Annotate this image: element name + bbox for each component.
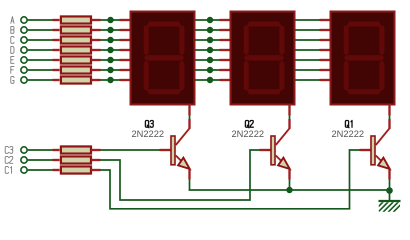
display 2 pin row C [220, 39, 230, 41]
display 1 pin row E [120, 59, 130, 61]
node F terminal label [11, 67, 14, 74]
wire E resistor to display 1 [101, 59, 120, 61]
resistor pin left (row D) [53, 49, 60, 51]
display 3 segment e [344, 60, 349, 90]
wire C2 routing to Q2 base [101, 150, 261, 200]
wire C1 routing to Q1 base [101, 150, 361, 209]
wire C terminal to resistor [28, 39, 53, 41]
display 2 pin row A [220, 19, 230, 21]
resistor pin right (row E) [91, 59, 101, 61]
transistor Q2 emitter pin vertical [288, 169, 290, 180]
wire G resistor to display 1 [101, 79, 120, 81]
display 3 pin row D [320, 49, 330, 51]
display 3 pin row C [320, 39, 330, 41]
wire display 2 common to transistor collector [289, 116, 291, 120]
junction dot Q2 emitter on ground rail [286, 187, 293, 194]
display 3 pin row F [320, 69, 330, 71]
display 3 segment d [347, 89, 382, 94]
transistor Q1 base pin [360, 149, 372, 151]
wire Q1 emitter to ground rail [389, 180, 391, 191]
wire B resistor to display 1 [101, 29, 120, 31]
transistor collector pin vertical (display 3) [388, 119, 390, 129]
display 1 pin row C [120, 39, 130, 41]
wire D display 2 to display 3 [296, 49, 320, 51]
resistor pin right (row G) [91, 79, 101, 81]
display 2 segment a [247, 22, 282, 27]
wire ground stub [389, 190, 391, 201]
wire B display 2 to display 3 [296, 29, 320, 31]
resistor pin right (row C2) [91, 159, 101, 161]
resistor pin left (row E) [53, 59, 60, 61]
display 3 pin row B [320, 29, 330, 31]
junction dot row G before display 1 [107, 77, 114, 84]
display 1 segment b [179, 25, 184, 55]
display 3 segment c [379, 60, 384, 90]
resistor RC [61, 36, 91, 43]
transistor Q1 2N2222 [371, 128, 390, 169]
transistor Q3 2N2222 [171, 128, 190, 169]
resistor pin left (row B) [53, 29, 60, 31]
transistor Q2 2N2222 [271, 128, 290, 169]
resistor pin right (row C3) [91, 149, 101, 151]
junction dot row D before display 1 [107, 47, 114, 54]
resistor pin left (row C) [53, 39, 60, 41]
node C1 terminal label [5, 167, 11, 174]
resistor pin left (row A) [53, 19, 60, 21]
display 2 segment b [279, 25, 284, 55]
node E terminal label [11, 57, 14, 64]
svg-text:2N2222: 2N2222 [332, 129, 365, 139]
wire F resistor to display 1 [101, 69, 120, 71]
resistor RF [61, 66, 91, 73]
svg-text:2N2222: 2N2222 [232, 129, 265, 139]
wire C display 1 to display 2 [196, 39, 220, 41]
display 1 pin row A [120, 19, 130, 21]
resistor RC3 [61, 146, 91, 153]
wire C2 terminal to resistor [28, 159, 53, 161]
ground symbol [373, 201, 404, 212]
terminal D circle [21, 47, 27, 53]
resistor pin left (row F) [53, 69, 60, 71]
junction dot row E between displays [207, 57, 214, 64]
display 1 segment a [147, 22, 182, 27]
wire D resistor to display 1 [101, 49, 120, 51]
wire C1 terminal to resistor [28, 169, 53, 171]
display 2 segment e [244, 60, 249, 90]
svg-text:2N2222: 2N2222 [132, 129, 165, 139]
wire Q3 emitter to ground rail [189, 180, 191, 191]
junction dot Q1 emitter at ground [386, 187, 393, 194]
display 3 common pin [388, 105, 390, 116]
terminal E circle [21, 57, 27, 63]
display 1 common pin [188, 105, 190, 116]
resistor pin left (row C1) [53, 169, 60, 171]
display 3 segment b [379, 25, 384, 55]
transistor Q2 label [245, 121, 253, 128]
junction dot row D between displays [207, 47, 214, 54]
resistor RB [61, 26, 91, 33]
wire E terminal to resistor [28, 59, 53, 61]
resistor RC1 [61, 166, 91, 173]
resistor RD [61, 46, 91, 53]
resistor RA [61, 16, 91, 23]
transistor Q3 base pin [160, 149, 172, 151]
junction dot row A before display 1 [107, 17, 114, 24]
node C terminal label [11, 37, 14, 44]
node A terminal label [11, 17, 14, 24]
wire display 3 common to transistor collector [389, 116, 391, 120]
junction dot row G between displays [207, 77, 214, 84]
wire E display 1 to display 2 [196, 59, 220, 61]
junction dot row A between displays [207, 17, 214, 24]
display 1 segment c [179, 60, 184, 90]
wire display 1 common to transistor collector [189, 116, 191, 120]
display 2 segment f [244, 25, 249, 55]
transistor collector pin vertical (display 1) [188, 119, 190, 129]
resistor RG [61, 76, 91, 83]
display 2 pin row D [220, 49, 230, 51]
wire G terminal to resistor [28, 79, 53, 81]
wire A resistor to display 1 [101, 19, 120, 21]
display 3 pin row E [320, 59, 330, 61]
resistor pin right (row B) [91, 29, 101, 31]
transistor Q3 label [145, 121, 153, 128]
display 3 segment f [344, 25, 349, 55]
display 1 segment g [144, 55, 185, 60]
resistor pin right (row D) [91, 49, 101, 51]
node C3 terminal label [5, 147, 13, 154]
display 1 pin row B [120, 29, 130, 31]
wire B display 1 to display 2 [196, 29, 220, 31]
junction dot row B before display 1 [107, 27, 114, 34]
display 1 pin row G [120, 79, 130, 81]
resistor RE [61, 56, 91, 63]
wire F display 1 to display 2 [196, 69, 220, 71]
wire F display 2 to display 3 [296, 69, 320, 71]
wire ground rail [189, 189, 390, 191]
wire A terminal to resistor [28, 19, 53, 21]
terminal C1 circle [21, 167, 27, 173]
wire E display 2 to display 3 [296, 59, 320, 61]
terminal F circle [21, 67, 27, 73]
junction dot row E before display 1 [107, 57, 114, 64]
wire A display 2 to display 3 [296, 19, 320, 21]
display 1 segment e [144, 60, 149, 90]
wire G display 2 to display 3 [296, 79, 320, 81]
terminal C2 circle [21, 157, 27, 163]
display 3 segment g [344, 55, 385, 60]
wire D display 1 to display 2 [196, 49, 220, 51]
terminal B circle [21, 27, 27, 33]
resistor pin left (row C3) [53, 149, 60, 151]
resistor pin left (row C2) [53, 159, 60, 161]
7-segment display 2 body [231, 12, 295, 105]
display 2 segment d [247, 89, 282, 94]
wire C resistor to display 1 [101, 39, 120, 41]
transistor collector pin vertical (display 2) [288, 119, 290, 129]
node B terminal label [11, 27, 14, 34]
resistor pin right (row F) [91, 69, 101, 71]
display 2 common pin [288, 105, 290, 116]
terminal C3 circle [21, 147, 27, 153]
display 2 pin row B [220, 29, 230, 31]
node C2 terminal label [5, 157, 13, 164]
display 1 segment f [144, 25, 149, 55]
wire Q2 emitter to ground rail [289, 180, 291, 191]
display 3 pin row G [320, 79, 330, 81]
display 1 segment d [147, 89, 182, 94]
wire A display 1 to display 2 [196, 19, 220, 21]
terminal G circle [21, 77, 27, 83]
junction dot row C between displays [207, 37, 214, 44]
wire D terminal to resistor [28, 49, 53, 51]
resistor pin left (row G) [53, 79, 60, 81]
transistor Q3 emitter pin vertical [188, 169, 190, 180]
wire B terminal to resistor [28, 29, 53, 31]
display 2 segment g [244, 55, 285, 60]
junction dot row C before display 1 [107, 37, 114, 44]
resistor pin right (row C) [91, 39, 101, 41]
display 2 pin row E [220, 59, 230, 61]
wire C display 2 to display 3 [296, 39, 320, 41]
wire F terminal to resistor [28, 69, 53, 71]
node G terminal label [11, 77, 14, 84]
resistor pin right (row C1) [91, 169, 101, 171]
transistor Q1 emitter pin vertical [388, 169, 390, 180]
display 1 pin row F [120, 69, 130, 71]
display 2 pin row G [220, 79, 230, 81]
display 3 pin row A [320, 19, 330, 21]
wire C3 to Q3 base [101, 149, 160, 151]
display 2 segment c [279, 60, 284, 90]
junction dot row F before display 1 [107, 67, 114, 74]
display 2 pin row F [220, 69, 230, 71]
wire C3 terminal to resistor [28, 149, 53, 151]
resistor RC2 [61, 156, 91, 163]
wire G display 1 to display 2 [196, 79, 220, 81]
transistor Q2 base pin [260, 149, 272, 151]
7-segment display 1 body [131, 12, 195, 105]
junction dot row F between displays [207, 67, 214, 74]
7-segment display 3 body [331, 12, 395, 105]
transistor Q1 label [345, 121, 352, 128]
terminal C circle [21, 37, 27, 43]
resistor pin right (row A) [91, 19, 101, 21]
display 1 pin row D [120, 49, 130, 51]
display 3 segment a [347, 22, 382, 27]
node D terminal label [11, 47, 14, 54]
terminal A circle [21, 17, 27, 23]
junction dot row B between displays [207, 27, 214, 34]
